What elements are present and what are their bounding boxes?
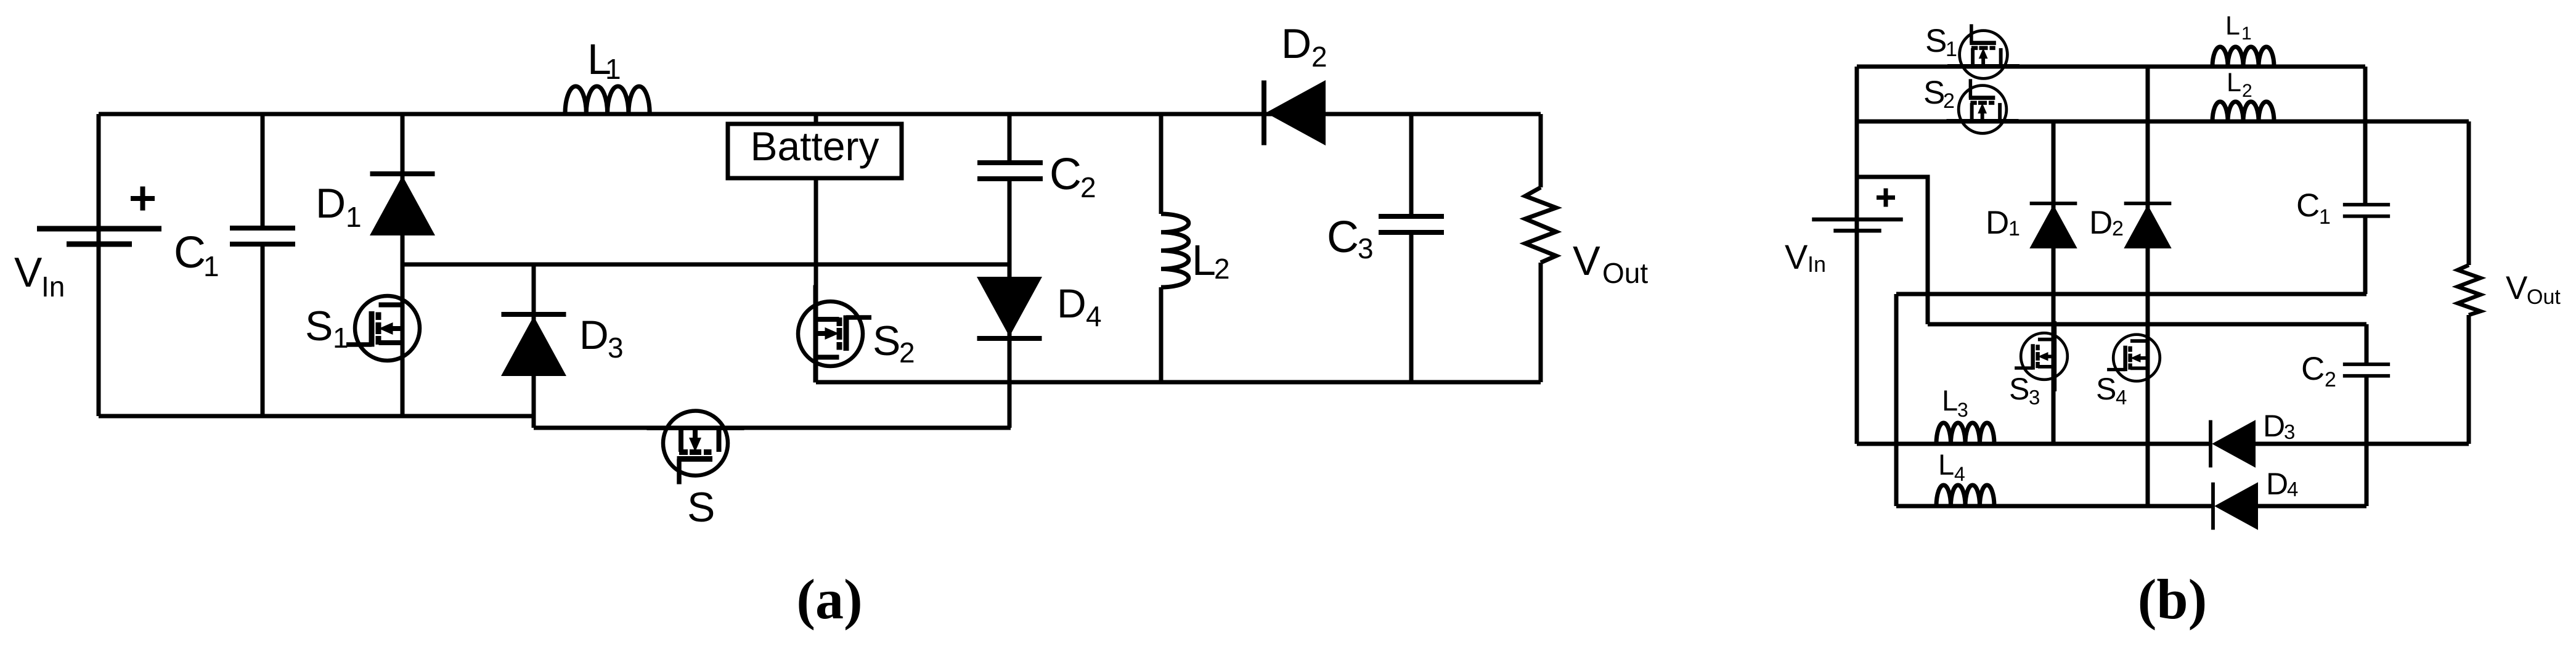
caption (b) xyxy=(2138,568,2207,631)
mosfet S1 (b) xyxy=(1947,24,2020,78)
label D3 (b) xyxy=(2263,409,2295,443)
svg-text:Out: Out xyxy=(2527,285,2561,309)
wire W3-L4 vertical (b) xyxy=(1894,294,1899,506)
label Vout (a) xyxy=(1573,238,1648,289)
svg-text:D: D xyxy=(1281,20,1311,67)
label Vout (b) xyxy=(2506,270,2561,309)
svg-text:V: V xyxy=(1785,237,1808,276)
label L3 (b) xyxy=(1942,384,1968,421)
svg-text:C: C xyxy=(2301,351,2325,387)
wire S bottom rail (a) xyxy=(534,426,1011,430)
wire top rail 1 (b) xyxy=(1857,65,2365,69)
svg-text:D: D xyxy=(1986,205,2009,241)
svg-text:In: In xyxy=(41,271,65,303)
wire L3 rail (b) xyxy=(1857,442,2211,446)
label S1 (a) xyxy=(305,303,349,354)
svg-text:4: 4 xyxy=(2287,478,2298,501)
svg-text:(b): (b) xyxy=(2138,568,2207,631)
svg-text:2: 2 xyxy=(2112,217,2124,240)
svg-text:1: 1 xyxy=(2319,205,2331,229)
svg-text:D: D xyxy=(2089,205,2113,241)
wire D1-S1 branch (a) xyxy=(401,114,405,416)
svg-text:3: 3 xyxy=(2029,386,2040,409)
svg-text:C: C xyxy=(174,228,206,277)
svg-text:2: 2 xyxy=(1311,41,1327,73)
wire D4 to C2 (b) xyxy=(2258,504,2366,509)
wire D2-S4 branch (b) xyxy=(2146,67,2150,506)
battery Vin (a) xyxy=(37,229,161,244)
capacitor C1 (a) xyxy=(230,228,295,244)
diode D1 (b) xyxy=(2029,203,2077,248)
svg-text:L: L xyxy=(2227,68,2241,97)
svg-text:2: 2 xyxy=(899,337,915,369)
mosfet S4 (b) xyxy=(2107,323,2160,393)
label C1 (a) xyxy=(174,228,219,282)
svg-text:2: 2 xyxy=(1214,253,1230,285)
label L2 (b) xyxy=(2227,68,2252,101)
wire L4 rail (b) xyxy=(1896,504,2213,509)
inductor L1 (b) xyxy=(2212,47,2274,67)
diode D2 (b) xyxy=(2124,203,2171,248)
svg-text:L: L xyxy=(2225,11,2240,41)
svg-text:2: 2 xyxy=(1080,171,1096,203)
label S2 (a) xyxy=(873,317,915,369)
label C2 (b) xyxy=(2301,351,2336,391)
plus sign Vin (b) xyxy=(1877,189,1895,207)
inductor L2 (b) xyxy=(2212,102,2274,121)
wire D1-S3 branch (b) xyxy=(2052,121,2056,444)
svg-text:S: S xyxy=(2009,372,2029,406)
svg-text:D: D xyxy=(316,180,346,227)
capacitor C2 (a) xyxy=(977,163,1043,179)
caption (a) xyxy=(796,568,862,631)
svg-text:2: 2 xyxy=(2325,368,2336,391)
inductor L1 (a) xyxy=(565,86,650,113)
wire left rail (b) xyxy=(1855,67,1859,444)
label D2 (b) xyxy=(2089,205,2124,241)
wire top rail 2 (b) xyxy=(1857,120,2469,124)
svg-text:C: C xyxy=(2296,187,2320,224)
svg-text:2: 2 xyxy=(2242,81,2252,101)
label L2 (a) xyxy=(1192,236,1230,285)
label D2 (a) xyxy=(1281,20,1327,73)
resistor Vout (b) xyxy=(2458,265,2480,315)
svg-text:2: 2 xyxy=(1943,89,1955,113)
battery Vin (b) xyxy=(1812,219,1902,231)
svg-text:D: D xyxy=(2263,409,2285,443)
inductor L4 (b) xyxy=(1936,485,1994,506)
svg-text:L: L xyxy=(1938,448,1954,481)
inductor L3 (b) xyxy=(1936,423,1994,444)
svg-text:L: L xyxy=(1942,384,1958,417)
capacitor C2 (b) xyxy=(2343,364,2390,376)
svg-text:1: 1 xyxy=(203,250,219,282)
inductor L2 (a) xyxy=(1161,214,1189,287)
svg-text:L: L xyxy=(1192,236,1216,284)
mosfet S2 (a) xyxy=(798,285,871,383)
plus sign Vin (a) xyxy=(131,187,155,211)
svg-text:1: 1 xyxy=(2008,217,2020,240)
label S (a) xyxy=(687,484,715,531)
wire S2 branch (a) xyxy=(814,264,818,382)
wire D3 branch (a) xyxy=(532,264,536,428)
diode D3 (b) xyxy=(2211,420,2256,467)
label Vin (a) xyxy=(14,249,65,303)
wire D3 to right rail (b) xyxy=(2256,442,2469,446)
svg-text:Out: Out xyxy=(1602,257,1648,289)
svg-text:S: S xyxy=(1925,23,1947,59)
svg-text:(a): (a) xyxy=(796,568,862,631)
wire battery lead (a) xyxy=(814,114,818,264)
label S2 (b) xyxy=(1923,75,1955,113)
mosfet S1 (a) xyxy=(346,280,420,377)
wire L2 branch (a) xyxy=(1159,114,1164,382)
diode D1 (a) xyxy=(370,174,435,235)
svg-text:3: 3 xyxy=(2284,420,2295,443)
wire battery jog (b) xyxy=(1857,177,1928,324)
svg-text:V: V xyxy=(1573,238,1600,284)
svg-text:1: 1 xyxy=(2241,23,2252,44)
capacitor C1 (b) xyxy=(2343,205,2390,216)
label D1 (a) xyxy=(316,180,362,233)
label L1 (b) xyxy=(2225,11,2252,44)
wire C1 branch (a) xyxy=(261,114,265,416)
resistor Vout (a) xyxy=(1525,187,1556,263)
svg-text:3: 3 xyxy=(1957,399,1968,421)
label S4 (b) xyxy=(2096,372,2127,409)
svg-text:C: C xyxy=(1327,213,1359,262)
wire C2-D4 branch (a) xyxy=(1008,114,1012,428)
diode D3 (a) xyxy=(501,314,566,376)
svg-text:1: 1 xyxy=(346,201,362,233)
label D1 (b) xyxy=(1986,205,2020,241)
label C1 (b) xyxy=(2296,187,2331,229)
wire left rail (a) xyxy=(97,114,101,416)
svg-text:1: 1 xyxy=(333,322,349,354)
svg-text:D: D xyxy=(1057,280,1086,326)
svg-text:S: S xyxy=(687,484,715,531)
wire right rail (b) xyxy=(2467,121,2471,444)
wire bottom left (a) xyxy=(99,414,534,419)
wire bottom right rail (a) xyxy=(816,380,1541,385)
label C3 (a) xyxy=(1327,213,1374,264)
svg-text:In: In xyxy=(1808,251,1826,277)
diode D4 (a) xyxy=(977,277,1042,338)
svg-text:4: 4 xyxy=(2116,386,2127,409)
diode D2 (a) xyxy=(1264,80,1326,145)
battery box (a) xyxy=(728,123,902,178)
wire mid rail (a) xyxy=(402,263,1009,267)
wire C1 branch (b) xyxy=(2363,67,2368,294)
svg-text:V: V xyxy=(2506,270,2528,306)
label L1 (a) xyxy=(587,35,621,85)
label D4 (a) xyxy=(1057,280,1102,332)
svg-text:S: S xyxy=(2096,372,2116,406)
svg-text:S: S xyxy=(873,317,900,364)
wire right rail (a) xyxy=(1539,114,1543,382)
svg-text:1: 1 xyxy=(605,53,621,85)
svg-text:3: 3 xyxy=(608,332,624,364)
label S1 (b) xyxy=(1925,23,1957,61)
svg-text:Battery: Battery xyxy=(750,123,879,169)
svg-text:D: D xyxy=(579,312,609,358)
svg-text:V: V xyxy=(14,249,43,296)
label D3 (a) xyxy=(579,312,624,364)
mosfet S2 (b) xyxy=(1947,79,2019,133)
svg-text:C: C xyxy=(1050,150,1082,199)
capacitor C3 (a) xyxy=(1379,216,1444,232)
mosfet S3 (b) xyxy=(2015,321,2068,391)
label D4 (b) xyxy=(2266,467,2298,501)
svg-text:S: S xyxy=(1923,75,1945,111)
label S3 (b) xyxy=(2009,372,2040,409)
label Vin (b) xyxy=(1785,237,1826,277)
wire C3 branch (a) xyxy=(1409,114,1414,382)
wire W4 rail (b) xyxy=(1928,322,2366,327)
svg-text:3: 3 xyxy=(1358,232,1374,264)
svg-text:S: S xyxy=(305,303,333,350)
svg-text:D: D xyxy=(2266,467,2288,501)
svg-text:1: 1 xyxy=(1946,38,1957,61)
wire top rail (a) xyxy=(99,112,1541,117)
label C2 (a) xyxy=(1050,150,1096,203)
diode D4 (b) xyxy=(2213,482,2258,529)
mosfet S (a) xyxy=(647,411,744,485)
svg-text:4: 4 xyxy=(1086,300,1102,332)
wire W3 rail (b) xyxy=(1896,292,2366,296)
wire C2 branch (b) xyxy=(2365,324,2369,506)
label L4 (b) xyxy=(1938,448,1965,485)
svg-text:4: 4 xyxy=(1954,463,1965,485)
